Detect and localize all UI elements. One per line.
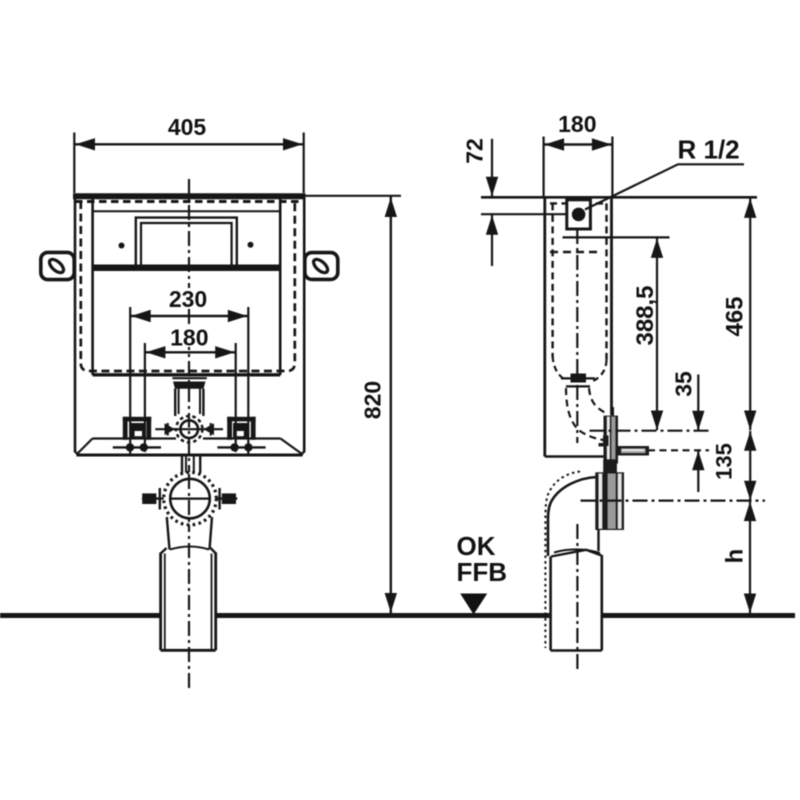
dim 820 arrow top bbox=[385, 198, 397, 218]
anchor bolt left a bbox=[126, 443, 134, 451]
dim 180L arrow right bbox=[215, 346, 235, 358]
pipe clamp outer dotted ring bbox=[164, 472, 217, 525]
pipe clamp tick left bbox=[159, 488, 161, 510]
svg-text:180: 180 bbox=[558, 111, 596, 137]
anchor bolt left b bbox=[140, 443, 148, 451]
wall fitting nub upper bbox=[603, 436, 609, 447]
water inlet square bbox=[567, 200, 591, 229]
flush valve dark collar bbox=[173, 382, 206, 389]
water connection crossline bbox=[155, 428, 223, 430]
outlet elbow body bbox=[548, 477, 597, 556]
water connection outer dashed ring bbox=[176, 416, 202, 442]
dim 180R ext left bbox=[542, 137, 544, 197]
tank liner dashed left bbox=[551, 203, 553, 357]
dim 180R arrow right bbox=[592, 138, 612, 150]
dim 230 line bbox=[130, 315, 248, 317]
wall fitting nub ledge bbox=[599, 443, 605, 447]
outlet socket bottom bbox=[551, 649, 602, 652]
panel inner frame bbox=[141, 223, 232, 265]
R 1/2 leader bbox=[585, 164, 744, 209]
dim h arrow down bbox=[744, 594, 756, 614]
socket left wall bbox=[159, 553, 162, 651]
flush pipe inner left bbox=[178, 389, 180, 414]
dim 72 arrow down bbox=[486, 177, 498, 197]
dim 405 ext left bbox=[73, 133, 75, 194]
wire inner bottom left segment bbox=[93, 437, 177, 439]
svg-text:35: 35 bbox=[671, 371, 697, 397]
dim 72 line bbox=[491, 139, 493, 196]
pipe clamp inner circle bbox=[170, 479, 210, 519]
dashed stub level bbox=[648, 449, 709, 451]
outlet pipe centerline bbox=[576, 524, 578, 671]
svg-text:FFB: FFB bbox=[457, 557, 508, 587]
neck inner left bbox=[185, 457, 187, 474]
wall fitting connector bbox=[603, 459, 617, 472]
wire bottom diagonal right bbox=[281, 439, 303, 455]
wall fitting upper flange bbox=[604, 416, 619, 464]
dim 180L arrow left bbox=[146, 346, 166, 358]
dim text 180 backing bbox=[168, 327, 211, 347]
water connection inner cross bbox=[176, 428, 202, 430]
neck outer right bbox=[199, 457, 201, 474]
water connection inner circle bbox=[180, 420, 198, 438]
socket inner right bbox=[211, 554, 213, 651]
svg-text:180: 180 bbox=[170, 325, 208, 351]
socket flare left bbox=[161, 548, 167, 554]
node left dot bbox=[119, 243, 125, 249]
dim 820 line bbox=[390, 197, 392, 614]
FFB floor marker triangle bbox=[460, 594, 487, 615]
water connection left arrow bbox=[165, 423, 176, 435]
dim 180R ext right bbox=[611, 137, 613, 197]
bracket left bbox=[123, 417, 151, 440]
taper pipe right wall bbox=[210, 517, 213, 550]
dim h line bbox=[749, 501, 751, 613]
socket inner left bbox=[164, 554, 166, 651]
socket bottom bbox=[161, 649, 216, 652]
dim text 230 backing bbox=[167, 288, 210, 309]
outlet socket joint arc bbox=[554, 549, 600, 553]
pipe clamp screw right bbox=[222, 493, 236, 504]
wire left outer wall bbox=[74, 196, 77, 453]
outlet socket joint bbox=[551, 550, 602, 557]
svg-text:h: h bbox=[722, 549, 749, 564]
wire frame top plate bbox=[73, 193, 306, 199]
dim 180L ext right bbox=[235, 343, 237, 452]
dim 230 ext right bbox=[247, 307, 249, 456]
water connection right arrow bbox=[204, 423, 215, 435]
anchor bolt right b bbox=[244, 443, 252, 451]
water inlet circle bbox=[572, 208, 586, 222]
wire inner wall right bbox=[279, 199, 282, 375]
neck outer left bbox=[181, 457, 183, 474]
svg-text:135: 135 bbox=[712, 443, 737, 480]
flush valve seat top bbox=[561, 377, 595, 379]
wire dashed liner left bbox=[81, 201, 295, 371]
dim 230 arrow left bbox=[131, 310, 151, 322]
wall outlet stub bbox=[618, 446, 649, 456]
wire bottom chamfer right bbox=[301, 451, 304, 456]
funnel dashed right bbox=[592, 360, 607, 382]
dim 135 arrow up bbox=[744, 431, 756, 451]
wire tank bottom bbox=[93, 373, 281, 376]
outlet socket right wall bbox=[600, 555, 603, 651]
dim 35 arrow up bbox=[692, 451, 704, 471]
right view: box left wall bbox=[543, 196, 546, 457]
flush elbow dashed outer bbox=[566, 388, 604, 440]
tank liner dashed top bbox=[550, 202, 607, 204]
water connection right tick bbox=[210, 423, 212, 436]
wire dashed top liner bbox=[75, 200, 304, 203]
pipe clamp tick right bbox=[218, 488, 220, 510]
dim 405 line bbox=[74, 143, 303, 145]
bracket right bbox=[227, 417, 255, 440]
anchor line left bbox=[113, 446, 161, 448]
dim 35 lower shaft bbox=[697, 451, 699, 492]
svg-text:R 1/2: R 1/2 bbox=[678, 135, 740, 165]
socket joint arc bbox=[170, 547, 209, 550]
right view centerline bbox=[576, 203, 578, 443]
dim 230 arrow right bbox=[228, 310, 248, 322]
dim 180R arrow left bbox=[545, 138, 565, 150]
dim 180R line bbox=[544, 143, 613, 145]
centerline outlet bbox=[581, 500, 766, 502]
wire inner bottom right segment bbox=[203, 437, 281, 439]
right view: box right wall bbox=[610, 196, 613, 415]
svg-text:465: 465 bbox=[722, 296, 749, 336]
water connection left tick bbox=[167, 423, 169, 436]
dim 405 arrow right bbox=[283, 138, 303, 150]
dim 35 arrow down bbox=[692, 411, 704, 431]
pipe clamp inner crossline bbox=[170, 498, 210, 500]
neck inner right bbox=[193, 457, 195, 474]
dim 35 upper shaft bbox=[697, 375, 699, 431]
svg-text:405: 405 bbox=[168, 114, 207, 140]
dim 180L ext left bbox=[144, 343, 146, 452]
wire bottom front edge bbox=[77, 454, 303, 457]
dim 72 line lower bbox=[491, 215, 493, 266]
dim 405 ext right bbox=[303, 133, 305, 194]
dim 72 connection level line bbox=[481, 213, 567, 215]
outlet socket left wall bbox=[549, 557, 552, 651]
right view: box top line bbox=[481, 196, 757, 199]
ear left bbox=[41, 252, 74, 279]
dim 230 ext left bbox=[129, 307, 131, 456]
floor line middle segment bbox=[216, 613, 550, 618]
svg-text:820: 820 bbox=[360, 381, 386, 419]
dim 72 arrow up bbox=[486, 215, 498, 235]
flush pipe outer left bbox=[174, 389, 176, 416]
outlet elbow right edge bbox=[597, 530, 599, 552]
dim 180L line bbox=[145, 351, 236, 353]
wall spine bbox=[611, 407, 614, 416]
anchor bolt right a bbox=[230, 443, 238, 451]
flush valve flange line bbox=[172, 377, 206, 379]
dim h arrow up bbox=[744, 502, 756, 521]
dim 820 arrow bottom bbox=[385, 593, 397, 613]
dim 820 top extension bbox=[306, 195, 402, 197]
flush elbow dashed inner bbox=[589, 388, 606, 413]
dim 465 line bbox=[749, 198, 751, 430]
dim 405 arrow left bbox=[76, 138, 96, 150]
dim 135 arrow down bbox=[744, 481, 756, 501]
ear right bbox=[305, 253, 338, 280]
flush pipe inner right bbox=[199, 389, 201, 414]
svg-text:388,5: 388,5 bbox=[632, 285, 659, 345]
taper pipe left wall bbox=[167, 517, 170, 550]
panel outer frame bbox=[136, 218, 237, 265]
anchor line right bbox=[217, 446, 265, 448]
pipe clamp screw left bbox=[142, 493, 156, 504]
flush valve seat bottom bbox=[566, 385, 590, 387]
outlet rough edge dotted bbox=[545, 472, 580, 649]
centerline over connection bbox=[188, 417, 190, 443]
dim 388.5 arrow up bbox=[651, 238, 663, 258]
right view: box bottom bbox=[545, 455, 612, 458]
tank dashed top inner bbox=[550, 251, 601, 253]
wire heavy bar under panel bbox=[94, 265, 281, 272]
funnel dashed left bbox=[553, 356, 566, 381]
socket right wall bbox=[214, 553, 217, 651]
dim 465 arrow down bbox=[744, 411, 756, 431]
socket flare right bbox=[211, 548, 216, 554]
flush pipe outer right bbox=[202, 389, 204, 416]
dim 388.5 line bbox=[656, 238, 658, 430]
tank liner dashed right bbox=[605, 203, 607, 361]
wire bottom chamfer left bbox=[75, 451, 78, 456]
wire inner wall left bbox=[91, 199, 94, 375]
wire tank lid line bbox=[93, 210, 281, 212]
dim 135 line bbox=[749, 431, 751, 500]
floor line left segment bbox=[0, 613, 160, 618]
dim 388.5 arrow down bbox=[651, 411, 663, 431]
wall fitting lower flange bbox=[595, 472, 624, 530]
centerline spud bbox=[590, 430, 710, 432]
ear left slot bbox=[47, 257, 66, 275]
pipe clamp crossline bbox=[142, 497, 237, 499]
node right dot bbox=[248, 242, 254, 248]
centerline over clamp bbox=[188, 474, 190, 523]
flush valve seal bbox=[571, 374, 587, 383]
ear right slot bbox=[311, 257, 330, 275]
svg-text:230: 230 bbox=[169, 286, 207, 312]
dim 465 arrow up bbox=[744, 198, 756, 218]
wire bottom diagonal left bbox=[77, 439, 93, 455]
centerline left view bbox=[188, 179, 190, 690]
wire right outer wall bbox=[303, 196, 306, 453]
svg-text:72: 72 bbox=[462, 138, 488, 164]
level line 388.5 reference bbox=[563, 236, 670, 238]
floor line right segment bbox=[603, 613, 795, 618]
